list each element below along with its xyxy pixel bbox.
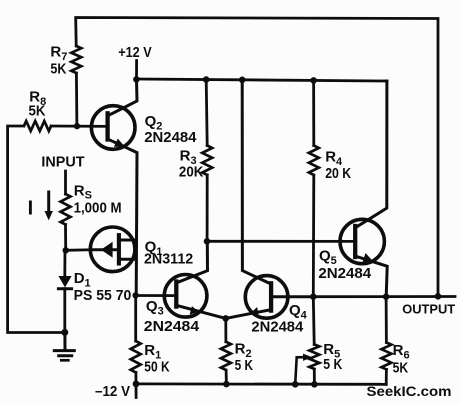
resistor R2 (5K) with leads [221, 318, 231, 384]
input current arrow I [45, 192, 53, 220]
svg-text:20 K: 20 K [325, 165, 351, 182]
svg-text:2N2484: 2N2484 [251, 319, 304, 336]
svg-text:2N2484: 2N2484 [144, 129, 197, 146]
wire: RS bottom to gate node [64, 225, 67, 251]
svg-text:2N2484: 2N2484 [144, 318, 200, 335]
resistor R8 [24, 121, 51, 131]
svg-text:5 K: 5 K [235, 357, 254, 374]
svg-text:2N2484: 2N2484 [318, 265, 371, 282]
diode D1 (PS 55 70) [58, 276, 71, 289]
wire: feedback loop from R7 top across the page top and down the right side to the output node [76, 18, 438, 297]
wire: left feedback wire from R8 left end down to ground wire [8, 126, 65, 333]
svg-text:5K: 5K [50, 61, 66, 78]
node A junction dot (R7/R8/Q2 base) [74, 123, 80, 129]
transistor Q5 (NPN 2N2484) [340, 81, 387, 297]
junction dot +12V rail / Q2 collector [133, 76, 140, 83]
junction dot Q1 source / Q3 base / R1 top [132, 292, 138, 298]
svg-text:INPUT: INPUT [41, 154, 84, 171]
wire: Q1 source node to Q3 base [136, 294, 177, 297]
-12 V terminal stub [135, 384, 138, 398]
wire: gate node down to diode D1 [63, 250, 66, 276]
R5 wiper arrow and return wire to rail [295, 354, 312, 385]
resistor R5 (5K potentiometer) with leads [309, 297, 319, 385]
svg-text:Q3: Q3 [146, 298, 164, 318]
junction dot R5 bottom / -12V rail [311, 381, 318, 388]
transistor Q1 (JFET 2N3112): circle, channel bar, gate arrow, drain/source stubs [90, 227, 136, 272]
resistor R7 [71, 46, 81, 73]
svg-text:5K: 5K [29, 103, 46, 120]
resistor RS (1,000 M) [61, 194, 71, 225]
resistor R1 (50K) with leads [131, 296, 141, 384]
svg-text:5 K: 5 K [323, 356, 342, 373]
ground symbol [54, 332, 74, 360]
svg-text:2N3112: 2N3112 [144, 251, 193, 268]
junction dot R5 wiper return / -12V rail [292, 381, 299, 388]
svg-text:SeekIC.com: SeekIC.com [367, 383, 452, 399]
svg-text:–12 V: –12 V [95, 383, 130, 400]
junction dot right feedback wire / output line [435, 293, 442, 300]
junction dot R3 bottom / Q3 collector / Q5 base [204, 238, 211, 245]
junction dot Q5 emitter / R6 / output line [383, 293, 390, 300]
svg-text:1,000 M: 1,000 M [74, 200, 122, 217]
svg-text:OUTPUT: OUTPUT [402, 301, 455, 316]
junction dot R4 bottom / Q4 base / output line / R5 top [310, 293, 317, 300]
resistor R6 (5K) with leads [381, 297, 391, 385]
transistor Q4 (NPN 2N2484, mirrored) [226, 80, 314, 319]
svg-text:50 K: 50 K [144, 358, 169, 375]
gate node junction dot (RS/D1/Q1 gate) [62, 247, 68, 253]
wire: D1 cathode down to ground node [63, 289, 66, 333]
svg-text:I: I [28, 197, 34, 219]
svg-text:20K: 20K [179, 163, 204, 180]
junction dot +12V rail / R4 branch [310, 77, 317, 84]
svg-text:PS 55 70: PS 55 70 [74, 287, 132, 304]
wire: +12 V rail [137, 79, 388, 81]
resistor R3 (20K) with leads [202, 80, 212, 242]
svg-text:+12 V: +12 V [118, 44, 152, 61]
junction dot common emitter node Q3/Q4/R2 [222, 315, 229, 322]
junction dot R1 / -12V rail / terminal [133, 381, 140, 388]
wire: INPUT lead down to RS [64, 171, 67, 194]
wire: node A to Q2 base [51, 125, 107, 128]
junction dot +12V rail / R3 branch [203, 76, 210, 83]
transistor Q3 (NPN 2N2484) [164, 241, 225, 318]
wire: R7 bottom lead down to node A [75, 73, 78, 126]
ground node junction dot [61, 329, 68, 336]
wire: gate node to Q1 gate [66, 248, 91, 251]
wire: R3 node to Q5 base [207, 240, 355, 243]
junction dot +12V rail / Q4 collector branch [239, 77, 246, 84]
wire: -12 V rail [136, 382, 386, 385]
junction dot R2 / -12V rail [223, 381, 230, 388]
resistor R4 (20K) with leads [309, 80, 319, 296]
wire: output line to right edge [313, 295, 455, 298]
transistor Q2 (NPN 2N2484) [91, 79, 137, 295]
svg-text:5K: 5K [393, 359, 409, 376]
+12 V supply stub [135, 61, 138, 80]
